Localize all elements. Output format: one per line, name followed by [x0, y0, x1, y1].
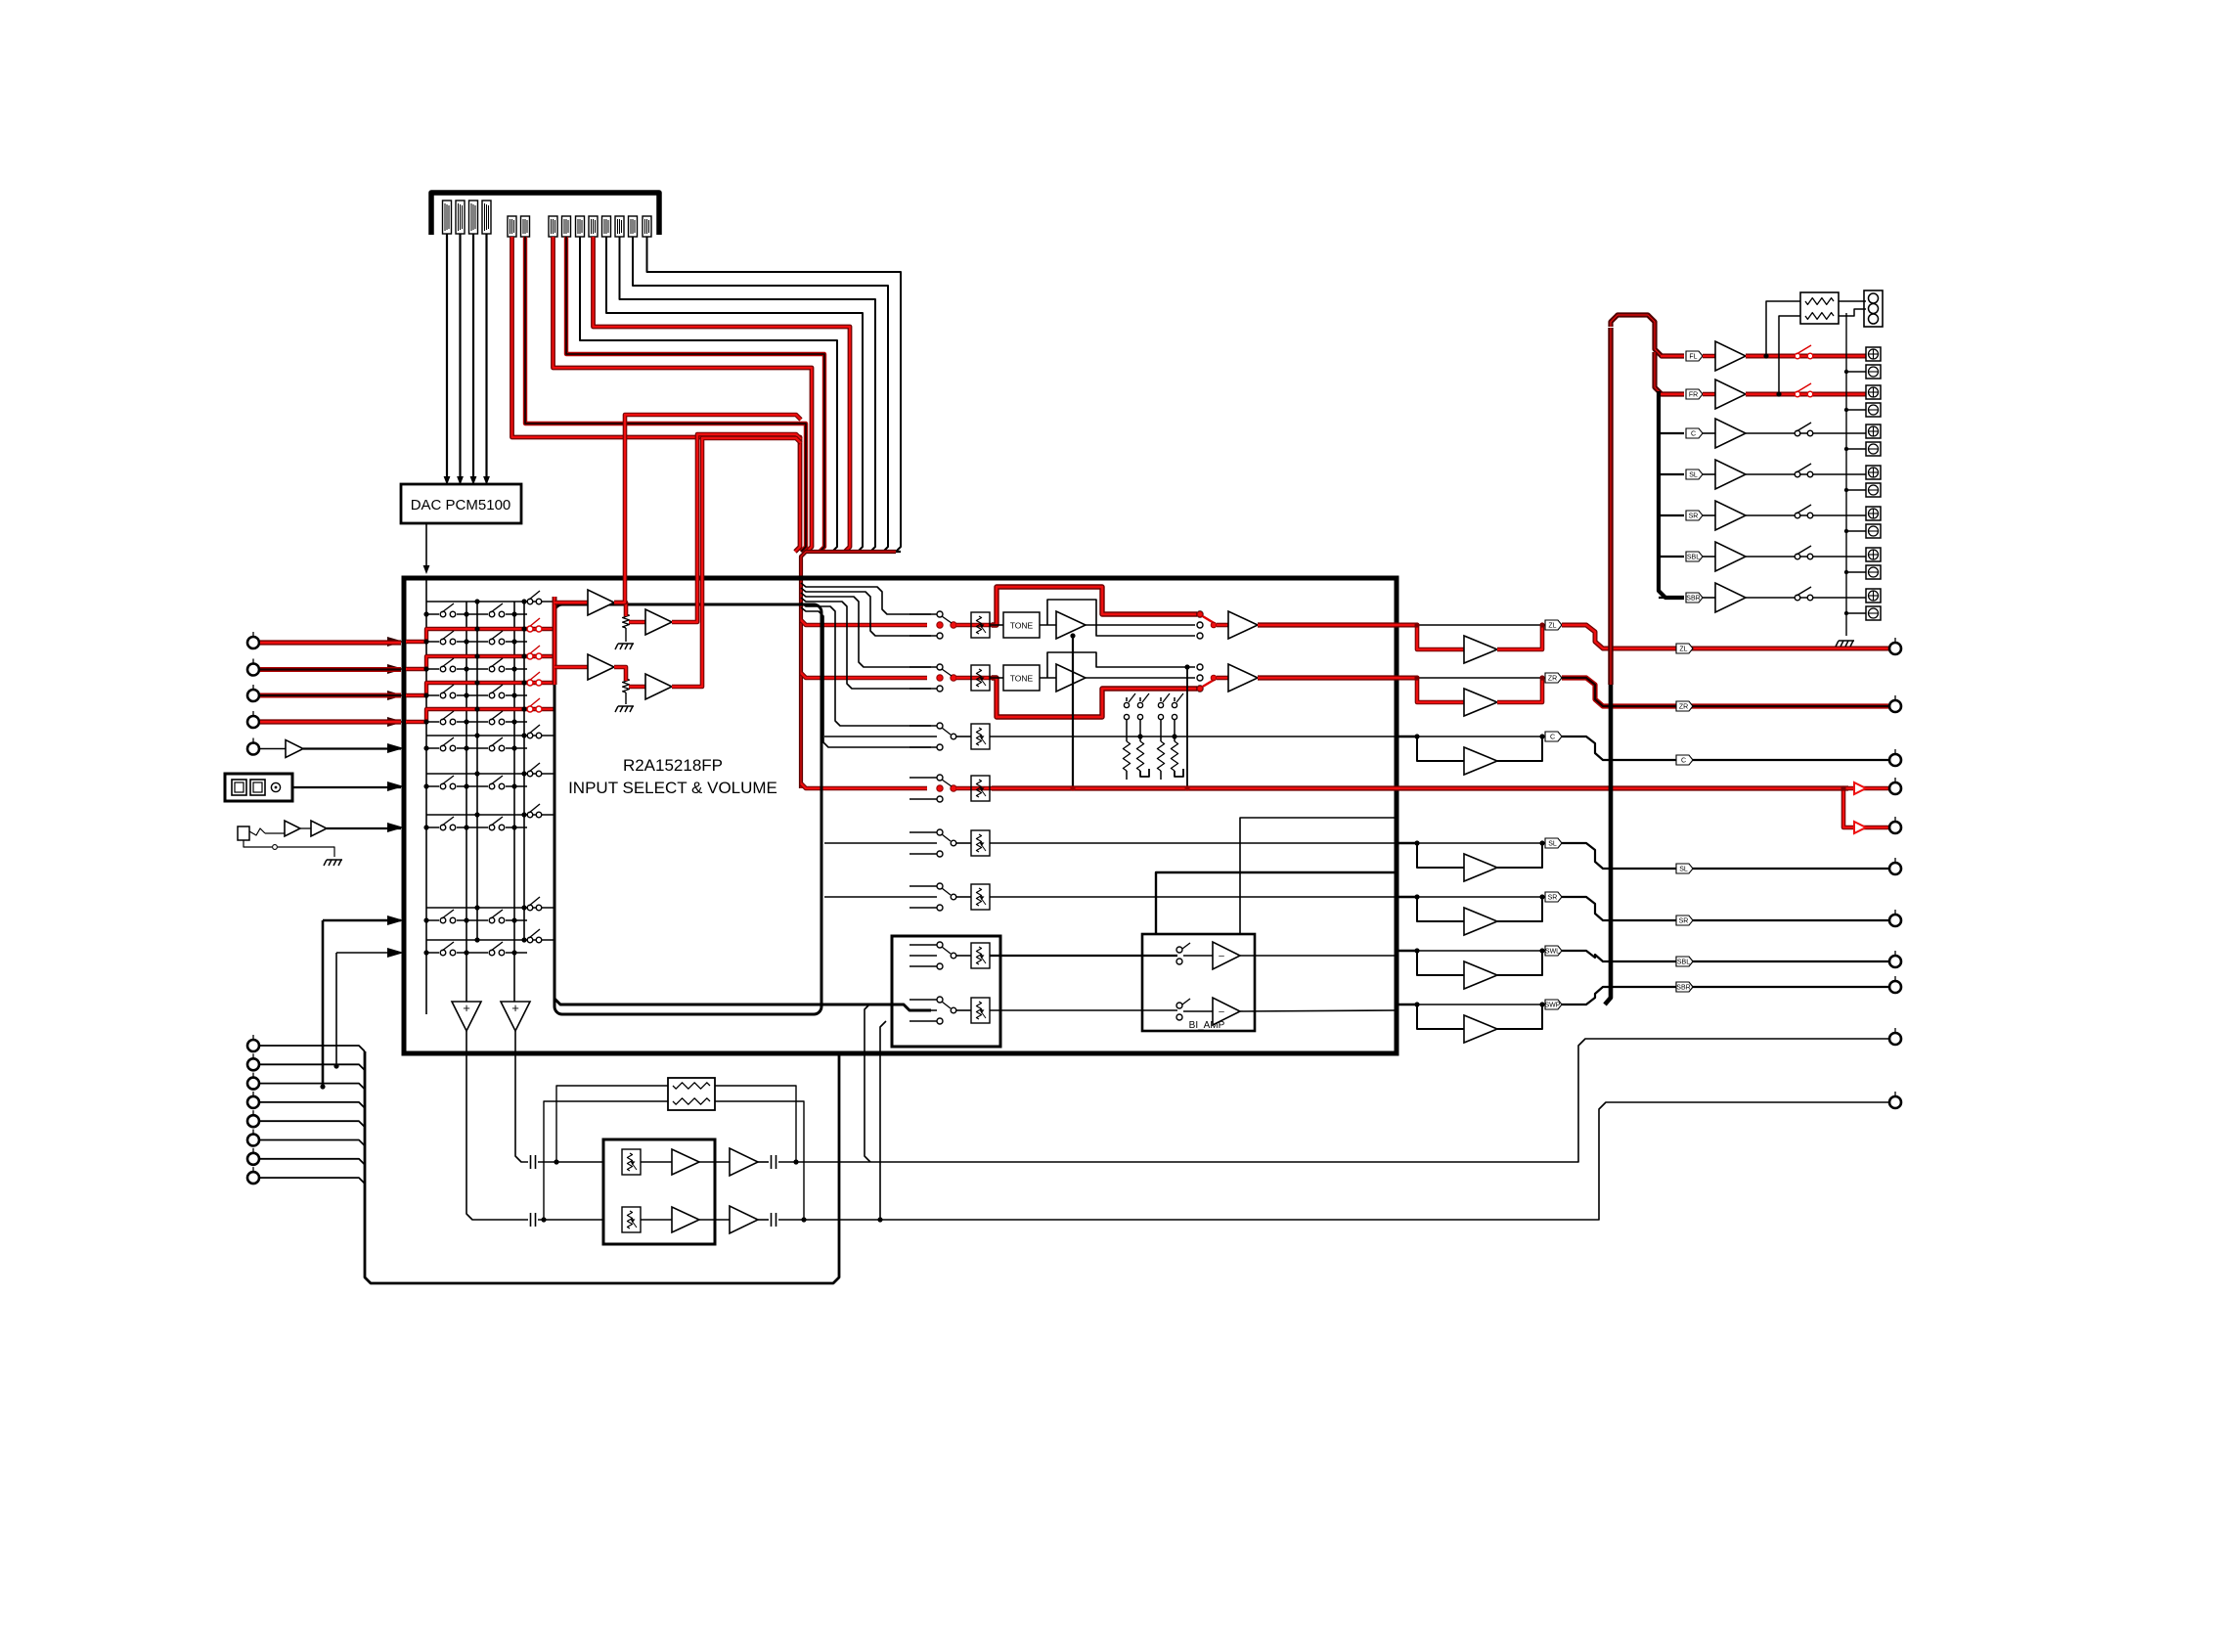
- svg-text:INPUT SELECT & VOLUME: INPUT SELECT & VOLUME: [568, 779, 777, 797]
- BI_AMP riser 1: [1156, 872, 1397, 934]
- switch S3 row y656: [527, 626, 533, 632]
- matrix output bus: [554, 604, 931, 1010]
- wire AIN route 10: [512, 237, 801, 552]
- speaker terminal SR-: [1866, 524, 1881, 538]
- wire AIN route 5: [594, 237, 851, 552]
- wire AIN route 1: [647, 237, 902, 552]
- row y977 volume block: [956, 955, 971, 957]
- relay switch FL: [1795, 353, 1800, 359]
- multich bus: [365, 1051, 839, 1283]
- wire bracket drop 1: [801, 583, 931, 614]
- R_imp2 left wire: [1779, 316, 1800, 394]
- speaker terminal SL+: [1866, 466, 1881, 479]
- mute switch SW3: [1160, 697, 1162, 701]
- connector pin DAC_4: [482, 201, 491, 234]
- sub amp2 A: [699, 1161, 730, 1163]
- block record-select group: [892, 936, 1000, 1047]
- tag C: [1686, 428, 1703, 438]
- switch S3 row y804: [527, 771, 533, 777]
- row y862 volume block: [956, 842, 971, 844]
- junction dots row y656: [423, 639, 428, 644]
- relay switch SR: [1795, 513, 1800, 518]
- row y639 volume block: [956, 623, 994, 628]
- svg-text:SR: SR: [1679, 918, 1689, 925]
- matrix row y711 upper wire: [426, 682, 524, 684]
- matrix bus V5: [523, 602, 525, 940]
- row y917 output wire: [990, 896, 1397, 898]
- switch S3 row y974: [527, 937, 533, 943]
- input wire MCH1: [260, 1046, 365, 1051]
- BI_AMP out b: [1240, 1010, 1397, 1011]
- svg-text:DAC PCM5100: DAC PCM5100: [411, 497, 511, 513]
- optical input module: [225, 774, 292, 801]
- svg-text:ZR: ZR: [1548, 676, 1557, 683]
- switch S3 row y846: [527, 812, 533, 818]
- speaker wire SL: [1746, 473, 1866, 475]
- svg-text:SBR: SBR: [1676, 985, 1690, 992]
- svg-text:SBL: SBL: [1687, 555, 1700, 561]
- speaker return SBL: [1846, 571, 1866, 573]
- power amp SBR: [1703, 597, 1715, 599]
- line amp row y862: [1397, 842, 1417, 845]
- optical wire: [292, 786, 401, 788]
- svg-text:ZL: ZL: [1548, 623, 1556, 630]
- row y1033 volume block: [956, 1009, 971, 1011]
- tag SBR: [1686, 593, 1703, 603]
- matrix row y656 upper wire: [426, 628, 524, 630]
- wire red elbow row1: [801, 620, 927, 625]
- sub volume B: [622, 1207, 641, 1232]
- BI_AMP switch b: [1176, 1003, 1182, 1008]
- relay switch SL: [1795, 471, 1800, 477]
- wire bracket drop 5: [801, 603, 931, 726]
- red jog row y693: [1562, 678, 1888, 706]
- speaker bus red segment: [1655, 352, 1684, 394]
- speaker terminal C+: [1866, 424, 1881, 438]
- row y639 red output: [1258, 622, 1397, 627]
- matrix row y628 upper wire: [426, 601, 554, 603]
- input wire LINE4: [260, 719, 401, 724]
- connector J1 bracket: [431, 193, 659, 235]
- wire red elbow row2: [801, 673, 927, 678]
- speaker terminal FR+: [1866, 385, 1881, 399]
- switch S1 row y711: [439, 692, 457, 699]
- BI_AMP amp b: [1183, 1010, 1213, 1012]
- tag ZL out: [1676, 644, 1693, 653]
- line out SW red: [1397, 785, 1848, 790]
- speaker wire FR: [1746, 392, 1866, 397]
- row y862 output wire: [990, 842, 1397, 844]
- tag C row y753: [1545, 732, 1562, 741]
- switch S3 row y684: [527, 653, 533, 659]
- junction dots row y804: [423, 783, 428, 788]
- input terminal MCH5: [247, 1110, 259, 1127]
- svg-text:SBR: SBR: [1686, 596, 1700, 603]
- tag FR: [1686, 389, 1703, 399]
- tag SBL out: [1676, 957, 1693, 966]
- wire red elbow row4: [801, 783, 927, 788]
- relay switch SBR: [1795, 595, 1800, 601]
- sub bypass resistor box: [668, 1078, 715, 1110]
- tag SBL: [1686, 552, 1703, 561]
- input wire MCH8: [260, 1178, 365, 1183]
- relay switch FR: [1795, 391, 1800, 397]
- wire AIN route 9: [525, 237, 806, 552]
- input terminal LINE2: [247, 659, 259, 676]
- buffer amp U1b: [614, 603, 626, 616]
- input terminal LINE3: [247, 685, 259, 701]
- switch S1 row y941: [439, 916, 457, 924]
- matrix row y765 main wire: [426, 747, 527, 749]
- input terminal LINE5: [247, 738, 259, 755]
- matrix bus V1: [425, 578, 427, 1014]
- mute switch SW2: [1139, 697, 1141, 701]
- terminal out y941: [1889, 910, 1901, 926]
- row y693 source switch: [909, 666, 937, 668]
- post switch row y693: [1197, 664, 1203, 670]
- svg-text:–: –: [1219, 951, 1224, 961]
- wire DAC input 3: [472, 234, 474, 476]
- wire summing out A1: [515, 1031, 528, 1162]
- sub out A wire: [778, 1039, 1888, 1162]
- sub resistor R_b: [673, 1098, 710, 1104]
- wire AIN route 8: [554, 237, 813, 552]
- jog row y972: [1562, 951, 1888, 961]
- power amp C: [1703, 432, 1715, 434]
- line amp row y693: [1397, 676, 1417, 681]
- tag SR row y917: [1545, 892, 1562, 902]
- buffer amp U1a: [554, 601, 588, 605]
- TONE box row y639: [990, 624, 1003, 626]
- sub out B wire: [778, 1102, 1888, 1220]
- wire bracket drop 2: [801, 588, 931, 636]
- mute switch SW4: [1174, 697, 1176, 701]
- speaker terminal SBR-: [1866, 606, 1881, 620]
- TONE box row y693: [990, 677, 1003, 679]
- record tap wire 1: [322, 920, 325, 1087]
- aux connector: [1864, 290, 1883, 327]
- speaker terminal FR-: [1866, 403, 1881, 417]
- row y693 volume block: [956, 676, 994, 681]
- terminal SW2: [1889, 817, 1901, 833]
- block main board outline: [404, 578, 1397, 1053]
- wire red loop B: [672, 438, 801, 687]
- tag SR: [1686, 511, 1703, 520]
- tone link vertical B: [1186, 667, 1188, 788]
- row y977 source switch: [909, 944, 937, 946]
- tone out row y639: [1086, 624, 1195, 626]
- sub cap B: [758, 1219, 769, 1221]
- input terminal MCH8: [247, 1167, 259, 1183]
- terminal sub A: [1889, 1028, 1901, 1045]
- matrix row y846 main wire: [426, 826, 527, 828]
- sub cap A: [758, 1161, 769, 1163]
- switch S3 row y711: [527, 680, 533, 686]
- shunt resistor R4: [1174, 720, 1176, 741]
- main bus vertical red segment: [1608, 328, 1613, 685]
- sub row B input: [531, 1213, 536, 1227]
- svg-text:FR: FR: [1689, 392, 1698, 399]
- speaker return C: [1846, 448, 1866, 450]
- input terminal MCH3: [247, 1073, 259, 1090]
- switch S2 row y974: [488, 949, 506, 957]
- relay switch C: [1795, 430, 1800, 436]
- row y639 red tone defeat: [992, 587, 1197, 625]
- input terminal MCH4: [247, 1092, 259, 1108]
- speaker wire C: [1746, 432, 1866, 434]
- speaker row C: [1659, 432, 1684, 434]
- speaker row FR: [1661, 392, 1684, 397]
- speaker wire SBL: [1746, 556, 1866, 558]
- matrix input arrow y738: [387, 717, 404, 727]
- matrix row y974 main wire: [426, 952, 527, 954]
- row y977 wire to BI_AMP: [990, 955, 1177, 957]
- terminal out y663: [1889, 638, 1901, 654]
- BI_AMP switch a: [1176, 947, 1182, 953]
- tone feedback row y639: [1047, 600, 1195, 636]
- headphone jack: [238, 826, 249, 840]
- speaker common return: [1845, 313, 1847, 636]
- speaker wire FL: [1746, 354, 1866, 359]
- speaker wire SBR: [1746, 597, 1866, 599]
- terminal out y722: [1889, 695, 1901, 712]
- power amp SL: [1703, 473, 1715, 475]
- input terminal MCH7: [247, 1148, 259, 1165]
- line amp row y917: [1397, 896, 1417, 899]
- wire bracket drop 4: [801, 598, 931, 689]
- junction dots row y628: [423, 611, 428, 616]
- BI_AMP out a: [1240, 955, 1397, 957]
- input terminal MCH1: [247, 1035, 259, 1051]
- switch S2 row y711: [488, 692, 506, 699]
- connector pin AIN_8: [615, 216, 624, 237]
- sub amp2 B: [699, 1219, 730, 1221]
- input terminal LINE4: [247, 711, 259, 728]
- speaker return SR: [1846, 530, 1866, 532]
- matrix row y628 main wire: [426, 613, 527, 615]
- headphone buffer 2: [300, 827, 311, 829]
- switch S3 row y765: [527, 733, 533, 738]
- matrix output bus red segment: [553, 597, 557, 685]
- matrix row y765 upper wire: [426, 735, 554, 737]
- speaker terminal SBL+: [1866, 548, 1881, 561]
- svg-text:ZR: ZR: [1679, 704, 1688, 711]
- matrix input arrow y941: [387, 915, 404, 925]
- junction dots row y846: [423, 825, 428, 829]
- row y917 source switch: [909, 885, 937, 887]
- wire DAC output: [425, 523, 427, 565]
- row y862 input wire: [824, 842, 937, 844]
- tone link vertical A: [1072, 636, 1074, 788]
- svg-text:SR: SR: [1689, 513, 1699, 520]
- speaker terminal C-: [1866, 442, 1881, 456]
- matrix input arrow y656: [387, 637, 404, 647]
- row y806 volume block: [956, 786, 994, 791]
- wire summing out A2: [466, 1031, 528, 1220]
- matrix bus V4: [513, 602, 515, 1002]
- switch S2 row y804: [488, 782, 506, 790]
- terminal out y777: [1889, 749, 1901, 766]
- svg-text:C: C: [1681, 758, 1686, 765]
- row y753 volume block: [956, 736, 971, 737]
- matrix row y711 main wire: [426, 694, 527, 696]
- svg-text:R2A15218FP: R2A15218FP: [623, 756, 723, 775]
- wire bracket drop 6: [801, 607, 931, 747]
- speaker terminal FL+: [1866, 347, 1881, 361]
- input terminal MCH2: [247, 1053, 259, 1070]
- line amp row y753: [1397, 736, 1417, 738]
- matrix input arrow y846: [387, 823, 404, 832]
- input wire LINE5: [260, 748, 286, 750]
- matrix row y656 main wire: [426, 641, 527, 643]
- tag SL row y862: [1545, 838, 1562, 848]
- svg-text:TONE: TONE: [1010, 674, 1034, 684]
- tag SBL out y983: [1676, 957, 1693, 966]
- connector pin DAC_2: [456, 201, 465, 234]
- tag SL: [1686, 469, 1703, 479]
- switch S2 row y628: [488, 610, 506, 618]
- sub row A input: [531, 1155, 536, 1169]
- svg-text:SL: SL: [1679, 867, 1688, 873]
- wire AIN route 7: [566, 237, 824, 552]
- matrix row y804 upper wire: [426, 773, 554, 775]
- wire AIN route 4: [606, 237, 863, 552]
- DAC U2 PCM5100: [401, 484, 521, 523]
- sub resistor R_a: [673, 1083, 710, 1089]
- connector pin AIN_5: [576, 216, 585, 237]
- red arrow SW2: [1854, 822, 1866, 833]
- row y917 volume block: [956, 896, 971, 898]
- svg-text:TONE: TONE: [1010, 621, 1034, 631]
- svg-text:+: +: [463, 1001, 470, 1015]
- tone out row y693: [1086, 677, 1195, 679]
- matrix row y738 upper wire: [426, 708, 524, 710]
- headphone buffer 1: [265, 832, 285, 834]
- row y1033 source switch: [909, 999, 937, 1001]
- summing amp A2: [501, 1002, 530, 1031]
- switch S2 row y765: [488, 744, 506, 752]
- row y917 input wire: [824, 896, 937, 898]
- terminal out y888: [1889, 858, 1901, 874]
- row y753 source switch: [909, 725, 937, 727]
- svg-text:C: C: [1550, 735, 1555, 741]
- matrix row y684 main wire: [426, 668, 527, 670]
- row y806 source switch: [909, 777, 937, 779]
- switch S3 row y738: [527, 706, 533, 712]
- multich bus into box: [838, 1053, 841, 1135]
- junction dots row y684: [423, 666, 428, 671]
- buffer amp U1c: [554, 665, 588, 670]
- block BI_AMP: [1142, 934, 1255, 1031]
- switch S1 row y974: [439, 949, 457, 957]
- wire red loop C riser: [614, 415, 801, 603]
- speaker terminal SR+: [1866, 507, 1881, 520]
- wire sub drop B: [880, 1021, 886, 1220]
- switch S1 row y628: [439, 610, 457, 618]
- wire red loop A: [672, 434, 801, 622]
- block sub filter: [603, 1139, 715, 1244]
- speaker row SBL: [1659, 556, 1684, 558]
- speaker terminal FL-: [1866, 365, 1881, 379]
- switch S1 row y738: [439, 718, 457, 726]
- speaker wire SR: [1746, 514, 1866, 516]
- matrix row y941 main wire: [426, 919, 527, 921]
- tag SWL row y972: [1545, 946, 1562, 956]
- red arrow SW1: [1854, 782, 1866, 794]
- speaker row SBR: [1659, 597, 1684, 599]
- switch S1 row y684: [439, 665, 457, 673]
- connector pin AIN_7: [602, 216, 611, 237]
- matrix row y941 upper wire: [426, 907, 554, 909]
- sub amp1 B: [641, 1219, 672, 1221]
- BI_AMP riser 2: [1240, 818, 1397, 934]
- matrix input arrow y804: [387, 781, 404, 791]
- input wire MCH3: [260, 1084, 365, 1090]
- switch S1 row y846: [439, 824, 457, 831]
- svg-text:ZL: ZL: [1679, 647, 1687, 653]
- headphone wire: [327, 827, 401, 829]
- tag FL: [1686, 351, 1703, 361]
- BI_AMP amp a: [1183, 955, 1213, 957]
- tone amp row y639: [1040, 624, 1056, 626]
- mute switch SW1: [1126, 697, 1128, 701]
- input wire MCH5: [260, 1121, 365, 1127]
- svg-text:SL: SL: [1689, 472, 1698, 479]
- buffer amp U1d: [614, 667, 626, 681]
- wire sub drop A: [865, 1005, 870, 1162]
- speaker row SR: [1659, 514, 1684, 516]
- junction dots row y974: [423, 950, 428, 955]
- post amp row y693: [1217, 676, 1228, 681]
- input wire MCH7: [260, 1159, 365, 1165]
- connector pin AIN_9: [629, 216, 638, 237]
- connector pin DAC_1: [443, 201, 452, 234]
- junction dots row y941: [423, 917, 428, 922]
- connector pin AIN_1: [508, 216, 516, 237]
- input terminal LINE1: [247, 632, 259, 648]
- matrix input arrow y765: [387, 743, 404, 753]
- junction dots row y738: [423, 719, 428, 724]
- speaker return FL: [1846, 371, 1866, 373]
- volume pot P2: [623, 679, 630, 692]
- switch S1 row y765: [439, 744, 457, 752]
- speaker row FL: [1661, 354, 1684, 359]
- impedance resistor box: [1800, 292, 1839, 324]
- input wire LINE2: [260, 667, 401, 672]
- matrix input arrow y974: [387, 948, 404, 958]
- switch S1 row y804: [439, 782, 457, 790]
- shunt resistor R1: [1126, 720, 1128, 741]
- matrix row y684 upper wire: [426, 655, 524, 657]
- switch S2 row y656: [488, 638, 506, 646]
- speaker common ground: [1836, 641, 1854, 647]
- matrix bus V3: [476, 602, 478, 940]
- speaker bus black segment: [1659, 391, 1684, 598]
- terminal sub B: [1889, 1092, 1901, 1108]
- volume pot P1: [623, 614, 630, 628]
- record row wire 2: [336, 952, 401, 954]
- matrix bus V2: [466, 602, 467, 1002]
- speaker return FR: [1846, 409, 1866, 411]
- wire AIN route 2: [633, 237, 888, 552]
- R_imp right wires: [1839, 300, 1866, 302]
- relay switch SBL: [1795, 554, 1800, 559]
- headphone squiggle: [249, 828, 265, 835]
- switch S2 row y846: [488, 824, 506, 831]
- input wire MCH6: [260, 1140, 365, 1146]
- input terminal MCH6: [247, 1130, 259, 1146]
- matrix input arrow y711: [387, 691, 404, 700]
